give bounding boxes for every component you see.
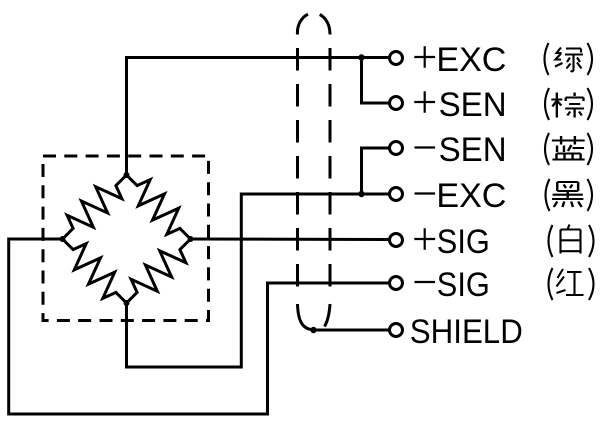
cable shield outline: top-right arc (320, 15, 330, 34)
color label (brown) (545, 88, 592, 120)
svg-text:SHIELD: SHIELD (410, 313, 523, 351)
resistor R2 (bottom-right arm) (127, 239, 191, 303)
color label (green) (545, 43, 593, 75)
svg-text:EXC: EXC (436, 41, 506, 79)
junction +SEN tap (358, 54, 364, 60)
svg-text:EXC: EXC (436, 177, 506, 215)
node left (60, 236, 66, 242)
terminal -SIG (390, 277, 403, 290)
cable shield dashed outline: right vertical (329, 33, 332, 295)
terminal +SIG (390, 234, 403, 247)
svg-text:SEN: SEN (439, 86, 507, 124)
plus sign of +SIG (414, 228, 435, 250)
terminal -EXC (390, 188, 403, 201)
node top (124, 172, 130, 178)
bridge housing dashed box (43, 156, 209, 321)
wire -SIG: bridge left node left, down, right, up, right to -SIG terminal (9, 239, 389, 414)
terminal +EXC (390, 52, 403, 65)
minus sign of -SIG (415, 281, 436, 283)
color label (blue) (545, 133, 592, 165)
wire +EXC: bridge top node up and right to +EXC terminal (127, 58, 390, 176)
terminal +SEN (390, 97, 403, 110)
cable shield dashed outline: left vertical (296, 33, 299, 295)
minus sign of -EXC (415, 192, 436, 194)
node bottom (124, 300, 130, 306)
resistor R1 (top-right arm) (127, 175, 191, 239)
cable shield outline: top-left arc (297, 14, 308, 33)
color label (black) (546, 179, 593, 211)
junction shield (310, 327, 316, 333)
resistor R4 (top-left arm) (63, 175, 127, 239)
svg-text:SIG: SIG (437, 266, 490, 304)
terminal SHIELD (390, 324, 403, 337)
resistor R3 (bottom-left arm) (63, 239, 127, 303)
minus sign of -SEN (415, 146, 436, 148)
wire -SEN: from -SEN terminal left then down to -EXC wire (362, 148, 390, 194)
svg-text:SIG: SIG (437, 223, 490, 261)
terminal -SEN (390, 142, 403, 155)
color label (white) (549, 225, 594, 258)
junction -SEN tap (358, 191, 364, 197)
plus sign of +EXC (414, 46, 435, 68)
wire +SEN: tap from +EXC wire down then right to +SEN terminal (362, 58, 390, 104)
wire +SIG: bridge right node to +SIG terminal (191, 238, 390, 242)
node right (188, 236, 194, 242)
wire -EXC: bridge bottom node down, right, up, right to -EXC terminal (127, 194, 390, 367)
color label (red) (549, 268, 594, 300)
svg-text:SEN: SEN (439, 131, 507, 169)
wire SHIELD: from cable shield point right to SHIELD terminal (314, 329, 390, 332)
cable shield outline: bottom-right arc (325, 304, 331, 327)
cable shield outline: bottom-left arc (298, 304, 314, 330)
plus sign of +SEN (414, 91, 435, 113)
